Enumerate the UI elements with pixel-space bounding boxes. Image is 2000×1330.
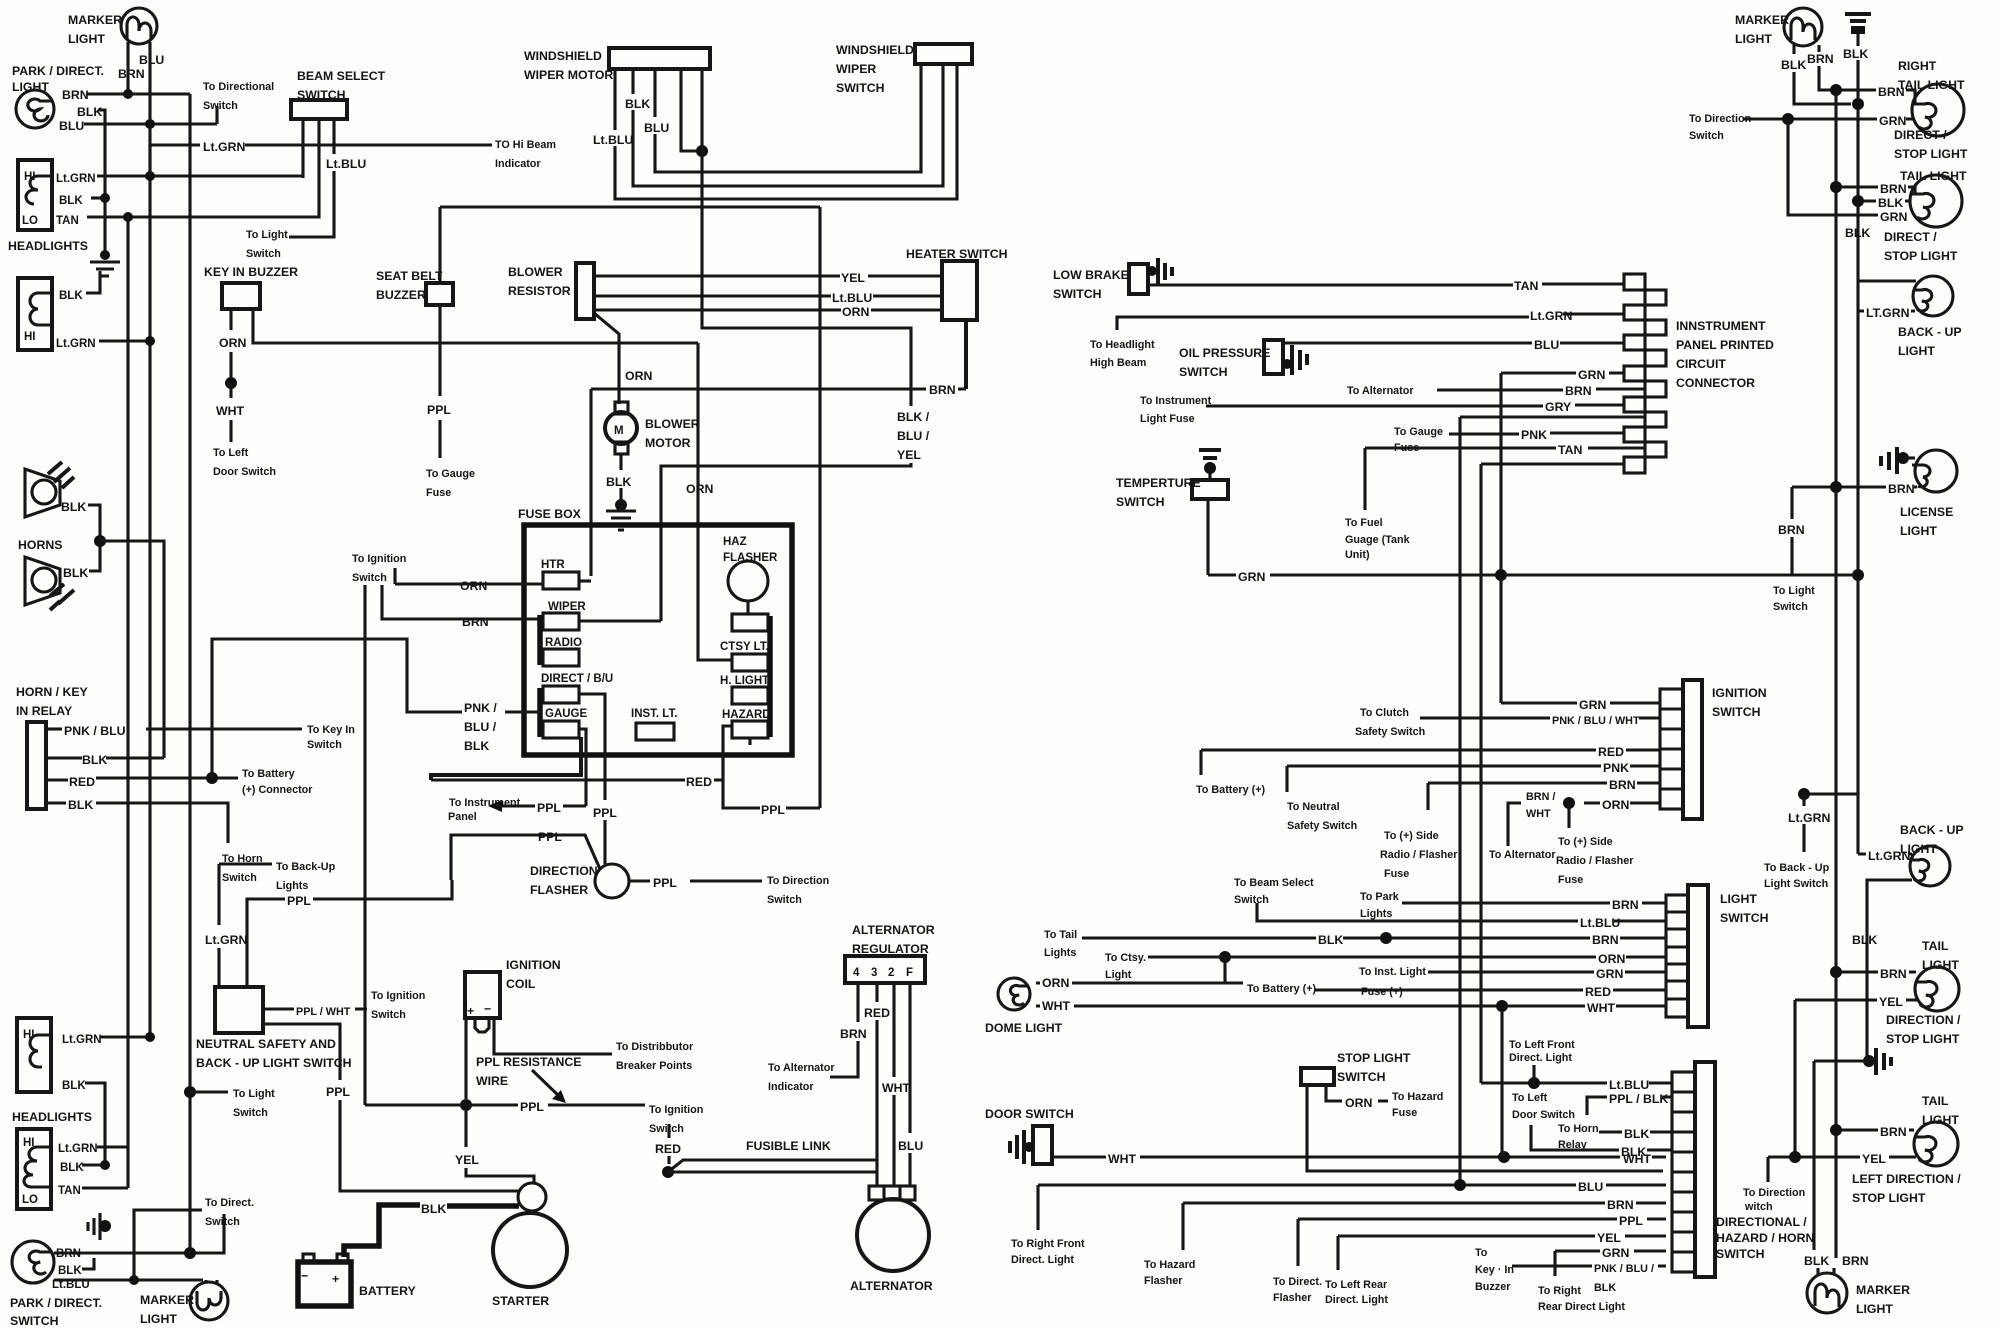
wire PPL top line to hazard riser: [440, 205, 820, 208]
wire wiper motor leg BLU: [655, 64, 921, 172]
wire PPL neutral to starter solenoid: [340, 1189, 519, 1192]
svg-text:RED: RED: [864, 1006, 890, 1020]
wire RED ignition to battery: [1201, 748, 1660, 751]
wire BRN ignition: [1428, 781, 1660, 784]
svg-text:BLU: BLU: [1578, 1180, 1603, 1194]
tail light 3: [1915, 939, 1959, 1011]
wire BRN bus: [1834, 90, 1837, 1258]
svg-text:Direct. Light: Direct. Light: [1509, 1052, 1572, 1064]
svg-text:TAN: TAN: [1514, 279, 1538, 293]
wire BRN into WIPER: [382, 585, 543, 619]
wire beam select right leg lower to To Light Switch: [289, 171, 334, 237]
oil pressure switch: [1179, 340, 1307, 379]
svg-text:PNK / BLU /: PNK / BLU /: [1594, 1263, 1654, 1275]
svg-text:BEAM SELECT: BEAM SELECT: [297, 69, 386, 83]
wire marker bottom leads: [1818, 1268, 1834, 1275]
svg-text:GRN: GRN: [1602, 1246, 1629, 1260]
wire BLK2 to horn switch: [96, 803, 228, 843]
wire GRN inst light line: [1428, 970, 1666, 973]
svg-text:Direct. Light: Direct. Light: [1011, 1254, 1074, 1266]
svg-text:Lt.GRN: Lt.GRN: [1788, 811, 1830, 825]
svg-text:TO Hi Beam: TO Hi Beam: [495, 139, 556, 151]
wire BRN3: [1836, 970, 1916, 973]
marker light bottom: [140, 1282, 228, 1326]
wire PPL line: [365, 1103, 645, 1106]
svg-text:BLOWER: BLOWER: [508, 265, 563, 279]
ignition coil: [465, 958, 561, 1032]
svg-text:KEY IN BUZZER: KEY IN BUZZER: [204, 265, 298, 279]
wire LtBLU bottom: [54, 1278, 203, 1281]
svg-text:MARKER: MARKER: [68, 13, 122, 27]
node BLK bus marker junction: [1852, 98, 1864, 110]
back-up light 2: [1900, 823, 1964, 886]
svg-text:To Park: To Park: [1360, 891, 1400, 903]
wire blower motor BLK down: [619, 454, 622, 500]
wire PNK/BLU/WHT clutch line: [1420, 716, 1660, 719]
wire YEL3: [1795, 997, 1917, 1000]
svg-text:ORN: ORN: [842, 305, 869, 319]
node WHT junction: [225, 377, 237, 389]
wire to fuel gauge drop: [1363, 448, 1366, 510]
svg-text:To Ignition: To Ignition: [649, 1104, 703, 1116]
svg-text:To Ignition: To Ignition: [371, 990, 425, 1002]
svg-text:GRN: GRN: [1579, 698, 1606, 712]
svg-text:Lt.GRN: Lt.GRN: [56, 338, 96, 350]
ground symbol (headlights): [90, 262, 120, 276]
node BRN4 junction: [1830, 1124, 1842, 1136]
wire GRN line: [1555, 1249, 1666, 1252]
wire PPL/WHT: [263, 1007, 367, 1010]
svg-text:COIL: COIL: [506, 977, 536, 991]
wire LtGRN into neutral switch: [217, 948, 220, 987]
wire PPL drop to direct flasher: [1296, 1219, 1299, 1266]
wire marker BRN lead: [1819, 45, 1831, 90]
svg-text:Indicator: Indicator: [768, 1081, 814, 1093]
wire lower Lt.GRN: [99, 339, 150, 342]
beam select switch: [291, 69, 386, 119]
wire to direct switch riser: [134, 1210, 202, 1280]
svg-text:Fuse: Fuse: [1384, 868, 1409, 880]
wire dome ORN / to battery: [1036, 957, 1243, 983]
svg-text:BLU: BLU: [59, 119, 84, 133]
svg-text:DOME LIGHT: DOME LIGHT: [985, 1021, 1063, 1035]
svg-text:To Inst. Light: To Inst. Light: [1359, 966, 1426, 978]
svg-text:DIRECTION /: DIRECTION /: [1886, 1013, 1961, 1027]
node horns junction: [94, 535, 106, 547]
wire GRN line from V1501: [1501, 371, 1624, 374]
node BLK junction: [100, 193, 110, 203]
wire BLU line: [1038, 1183, 1666, 1186]
wire GRN direction line: [1743, 117, 1913, 120]
starter solenoid: [518, 1183, 546, 1211]
wire BRN drop to light switch: [1790, 487, 1793, 576]
node BLU junction V1460: [1454, 1179, 1466, 1191]
svg-text:To Hazard: To Hazard: [1144, 1259, 1195, 1271]
wire ORN riser into fuse box: [698, 343, 732, 660]
node TAN junction: [123, 212, 133, 222]
wire PNK/BLU/BLK key buzzer line: [1512, 1264, 1666, 1267]
svg-text:WINDSHIELD: WINDSHIELD: [524, 49, 602, 63]
wire to light switch: [190, 1090, 228, 1093]
wire PPL from neutral switch to flasher: [451, 835, 600, 880]
svg-text:Lt.BLU: Lt.BLU: [1609, 1078, 1649, 1092]
wire GAUGE to PPL instrument riser: [579, 729, 586, 806]
svg-text:Lt.BLU: Lt.BLU: [593, 133, 633, 147]
svg-text:BRN: BRN: [1880, 967, 1907, 981]
node BLK2 junction: [1852, 195, 1864, 207]
starter motor: [492, 1213, 567, 1308]
svg-text:BLK: BLK: [1845, 226, 1870, 240]
svg-text:BLU: BLU: [644, 121, 669, 135]
svg-text:HORN / KEY: HORN / KEY: [16, 685, 88, 699]
wire BRN line: [1183, 1201, 1666, 1204]
wire YEL drop to left rear: [1336, 1236, 1339, 1270]
svg-text:BLK: BLK: [59, 290, 83, 302]
dome light: [985, 978, 1063, 1035]
node BRN3 junction: [1830, 966, 1842, 978]
ground symbol (top right): [1845, 14, 1871, 46]
svg-text:To Left Rear: To Left Rear: [1325, 1279, 1388, 1291]
svg-text:To Ignition: To Ignition: [352, 553, 406, 565]
svg-text:BLK: BLK: [1843, 47, 1868, 61]
svg-text:MARKER: MARKER: [140, 1293, 194, 1307]
svg-text:BLK: BLK: [63, 566, 88, 580]
wire regulator pin4 BRN: [830, 983, 858, 1077]
svg-text:BRN: BRN: [1888, 482, 1915, 496]
svg-text:STARTER: STARTER: [492, 1294, 549, 1308]
wire coil left leg to PPL dot: [464, 1018, 467, 1099]
svg-text:SWITCH: SWITCH: [1716, 1247, 1765, 1261]
svg-text:BRN: BRN: [56, 1248, 81, 1260]
svg-text:BLK: BLK: [61, 500, 86, 514]
svg-text:LO: LO: [22, 1194, 38, 1206]
svg-text:BLK: BLK: [1318, 933, 1343, 947]
svg-text:RIGHT: RIGHT: [1898, 59, 1937, 73]
wire to directional switch riser: [215, 106, 218, 124]
svg-text:BRN: BRN: [462, 615, 489, 629]
svg-text:YEL: YEL: [1879, 995, 1903, 1009]
ground symbol (left bottom, sideways): [88, 1213, 100, 1240]
svg-text:BATTERY: BATTERY: [359, 1284, 416, 1298]
svg-text:To (+) Side: To (+) Side: [1384, 830, 1439, 842]
wire ORN into HTR: [395, 568, 543, 584]
svg-text:To Direction: To Direction: [767, 875, 829, 887]
wire Lt.GRN headlight high beam line: [1117, 314, 1624, 330]
headlights lower connector: [18, 278, 52, 350]
node BRN license junction: [1830, 481, 1842, 493]
wire headlight BLK: [91, 196, 105, 199]
svg-text:To Left Front: To Left Front: [1509, 1039, 1575, 1051]
svg-text:TAN: TAN: [1558, 443, 1582, 457]
wire horns to relay riser: [100, 541, 164, 758]
node BRN2 junction: [1830, 181, 1842, 193]
wire park BRN to directional elbow: [86, 92, 190, 95]
svg-text:To Instrument: To Instrument: [449, 797, 521, 809]
svg-text:Unit): Unit): [1345, 549, 1370, 561]
wire DIRECT to PPL riser: [579, 694, 605, 800]
instrument panel printed circuit connector: [1624, 274, 1666, 473]
svg-text:PARK / DIRECT.: PARK / DIRECT.: [10, 1296, 102, 1310]
wire relay PNK/BLU: [46, 727, 62, 730]
svg-text:MARKER: MARKER: [1856, 1283, 1910, 1297]
wire To Gauge Fuse PNK line: [1449, 433, 1624, 434]
svg-text:BLK: BLK: [1624, 1127, 1649, 1141]
svg-text:RED: RED: [1585, 985, 1611, 999]
svg-text:LIGHT: LIGHT: [1735, 32, 1772, 46]
back-up light: [1898, 276, 1962, 358]
svg-text:Flasher: Flasher: [1273, 1292, 1312, 1304]
svg-text:To Instrument: To Instrument: [1140, 395, 1212, 407]
svg-text:REGULATOR: REGULATOR: [852, 942, 929, 956]
wire PPL to gauge fuse: [438, 420, 441, 458]
svg-text:YEL: YEL: [455, 1153, 479, 1167]
park / direct switch bulb: [12, 1241, 54, 1283]
battery: [298, 1254, 416, 1306]
svg-text:Relay: Relay: [1558, 1139, 1587, 1151]
wire BLK2: [1858, 199, 1910, 202]
svg-text:DIRECT /: DIRECT /: [1894, 128, 1947, 142]
svg-text:LIGHT: LIGHT: [140, 1312, 177, 1326]
wire battery BLK cable: [344, 1205, 420, 1257]
svg-text:To Left: To Left: [213, 447, 249, 459]
wire ORN blower to heater: [594, 308, 942, 311]
wire seat belt buzzer down: [438, 305, 441, 396]
wire WIPER to right riser: [579, 619, 661, 622]
svg-text:RED: RED: [1598, 745, 1624, 759]
wire GRN ignition: [1501, 701, 1660, 704]
fuse HAZARD: [732, 721, 768, 738]
svg-text:PPL: PPL: [653, 876, 677, 890]
svg-text:BRN: BRN: [840, 1027, 867, 1041]
svg-text:OIL PRESSURE: OIL PRESSURE: [1179, 346, 1270, 360]
wire TAN low brake to connector: [1148, 284, 1624, 285]
node BLK junction: [1380, 932, 1392, 944]
wire ORN to WHT: [229, 352, 232, 378]
svg-text:BLK: BLK: [1621, 1145, 1646, 1159]
svg-text:BLK: BLK: [625, 97, 650, 111]
wire DIRECT PPL riser to flasher: [603, 820, 606, 864]
wire GRY instrument light fuse line: [1206, 405, 1624, 406]
license light: [1900, 450, 1957, 538]
wire marker BLK lead: [1794, 45, 1851, 104]
wire regulator pinF BLU: [908, 983, 911, 1186]
svg-text:SWITCH: SWITCH: [1179, 365, 1228, 379]
svg-text:Lt.BLU: Lt.BLU: [832, 291, 872, 305]
svg-text:WHT: WHT: [216, 404, 244, 418]
heater switch: [906, 247, 1008, 320]
marker light bottom right: [1807, 1273, 1910, 1316]
wire fusible link lower: [668, 1170, 877, 1173]
svg-text:GRN: GRN: [1879, 114, 1906, 128]
svg-text:PNK / BLU: PNK / BLU: [64, 724, 126, 738]
svg-text:WIPER: WIPER: [548, 601, 586, 613]
svg-text:BLU: BLU: [898, 1139, 923, 1153]
svg-text:BLK: BLK: [68, 798, 93, 812]
wire GRN drop to right rear: [1553, 1251, 1556, 1276]
svg-text:−: −: [301, 1269, 308, 1283]
wire flasher to fuse1: [746, 601, 749, 614]
wire headlight Lt.GRN: [97, 174, 303, 177]
svg-text:GRN: GRN: [1578, 368, 1605, 382]
svg-text:BRN: BRN: [1592, 933, 1619, 947]
svg-text:Lt.GRN: Lt.GRN: [56, 173, 96, 185]
node LtGRN junction 2: [145, 336, 155, 346]
wire blower resistor ORN diagonal: [594, 313, 619, 404]
wire BLK bottom: [82, 1258, 94, 1269]
svg-text:To Alternator: To Alternator: [1489, 849, 1556, 861]
wire PNK/BLU/BLK into GAUGE fuse: [505, 710, 540, 713]
svg-text:BRN: BRN: [1609, 778, 1636, 792]
wire flasher PPL to direction switch: [629, 879, 762, 882]
svg-text:BACK - UP: BACK - UP: [1900, 823, 1964, 837]
wire park BLU horizontal: [84, 122, 217, 125]
svg-text:BRN: BRN: [1612, 898, 1639, 912]
svg-text:LOW BRAKE: LOW BRAKE: [1053, 268, 1129, 282]
svg-text:PPL: PPL: [326, 1085, 350, 1099]
svg-text:Lt.GRN: Lt.GRN: [205, 933, 247, 947]
node BRN bus top junction: [1830, 84, 1842, 96]
wire Lt.BLU beam select line: [1257, 903, 1666, 921]
svg-text:TAN: TAN: [56, 215, 79, 227]
svg-text:GRY: GRY: [1545, 400, 1571, 414]
key in buzzer: [204, 265, 298, 309]
fuse GAUGE: [543, 708, 588, 738]
wire back-up 2 branch: [1804, 792, 1858, 795]
svg-text:STOP LIGHT: STOP LIGHT: [1852, 1191, 1926, 1205]
node blower ground dot: [615, 499, 627, 511]
svg-text:BRN: BRN: [1878, 85, 1905, 99]
svg-text:LICENSE: LICENSE: [1900, 505, 1953, 519]
svg-text:PANEL PRINTED: PANEL PRINTED: [1676, 338, 1774, 352]
svg-text:YEL: YEL: [841, 271, 865, 285]
svg-text:To Distribbutor: To Distribbutor: [616, 1041, 694, 1053]
fuse RADIO: [543, 637, 582, 666]
node ORN junction: [1563, 797, 1575, 809]
svg-text:PNK: PNK: [1521, 428, 1547, 442]
svg-text:BLK: BLK: [1594, 1282, 1616, 1294]
svg-text:ORN: ORN: [1042, 976, 1069, 990]
node BLU junction: [145, 119, 155, 129]
fuse HTR: [541, 559, 579, 589]
svg-text:PPL: PPL: [538, 830, 562, 844]
svg-text:Switch: Switch: [1234, 894, 1269, 906]
svg-text:PARK / DIRECT.: PARK / DIRECT.: [12, 64, 104, 78]
wire battery+ riser to PNK/BLU/BLK: [212, 639, 462, 778]
svg-text:ALTERNATOR: ALTERNATOR: [850, 1279, 933, 1293]
wire left front drop: [1532, 1065, 1535, 1083]
svg-text:HAZARD / HORN: HAZARD / HORN: [1716, 1231, 1814, 1245]
wire BRN to right tail: [1836, 90, 1915, 104]
wire BLK cable to solenoid: [447, 1203, 519, 1209]
svg-text:BRN: BRN: [1842, 1254, 1869, 1268]
svg-text:PPL: PPL: [593, 806, 617, 820]
fuse H LIGHT: [732, 687, 768, 704]
wire PPL elbow from neutral switch: [247, 880, 452, 987]
svg-text:witch: witch: [1744, 1201, 1773, 1213]
svg-text:INST. LT.: INST. LT.: [631, 708, 677, 720]
wire TAN fuel gauge line: [1365, 446, 1644, 449]
svg-text:To Gauge: To Gauge: [1394, 426, 1443, 438]
svg-text:WIRE: WIRE: [476, 1074, 508, 1088]
svg-text:BLK: BLK: [60, 1162, 84, 1174]
wire BLK bus lower: [1856, 577, 1859, 854]
svg-text:TEMPERTURE: TEMPERTURE: [1116, 476, 1201, 490]
svg-text:STOP LIGHT: STOP LIGHT: [1894, 147, 1968, 161]
svg-text:Switch: Switch: [767, 894, 802, 906]
wire V1460: [1458, 417, 1461, 1185]
wire ORN drop: [1567, 803, 1570, 828]
svg-text:LO: LO: [22, 215, 38, 227]
wire BLU oil switch to connector: [1283, 341, 1624, 344]
wire fusible link upper: [668, 1160, 877, 1172]
svg-text:Switch: Switch: [203, 100, 238, 112]
svg-text:To Back-Up: To Back-Up: [276, 861, 336, 873]
svg-text:PPL: PPL: [1619, 1214, 1643, 1228]
wire YEL4: [1768, 1155, 1916, 1158]
alternator connector: [869, 1186, 915, 1200]
svg-text:Light: Light: [1105, 969, 1132, 981]
fuse INST LT: [631, 708, 677, 740]
marker light (top right): [1735, 8, 1822, 46]
wire relay BLK to horns riser: [46, 756, 164, 759]
wire below dot: [229, 388, 232, 398]
ground symbol (license): [1881, 447, 1915, 474]
svg-text:BLK: BLK: [1852, 933, 1877, 947]
wire regulator pin2 WHT: [892, 983, 895, 1186]
svg-text:To Left: To Left: [1512, 1092, 1548, 1104]
wire key-in buzzer left leg: [229, 309, 232, 330]
node GRN junction: [1782, 113, 1794, 125]
svg-text:To Direct.: To Direct.: [1273, 1276, 1322, 1288]
tail light 2: [1900, 169, 1967, 227]
svg-text:To Fuel: To Fuel: [1345, 517, 1383, 529]
svg-text:LT.GRN: LT.GRN: [1866, 306, 1910, 320]
svg-text:BLK: BLK: [58, 1265, 82, 1277]
svg-text:TAIL: TAIL: [1922, 939, 1949, 953]
svg-text:WINDSHIELD: WINDSHIELD: [836, 43, 914, 57]
wire temp switch GRN: [1206, 499, 1209, 575]
svg-text:GAUGE: GAUGE: [545, 708, 588, 720]
svg-text:Switch: Switch: [307, 739, 342, 751]
svg-text:PPL: PPL: [427, 403, 451, 417]
wire ignition red lead: [667, 1124, 670, 1164]
svg-text:To Key In: To Key In: [307, 724, 355, 736]
svg-text:Flasher: Flasher: [1144, 1275, 1183, 1287]
svg-text:PPL: PPL: [537, 801, 561, 815]
wire back-up 2 BLK down: [1867, 880, 1912, 1061]
svg-text:ORN: ORN: [219, 336, 246, 350]
svg-text:YEL: YEL: [1597, 1231, 1621, 1245]
svg-text:4: 4: [853, 967, 860, 979]
neutral safety and back-up light switch: [196, 987, 352, 1070]
bar left of DIRECT/GAUGE: [537, 688, 543, 737]
svg-text:Safety Switch: Safety Switch: [1355, 726, 1425, 738]
svg-text:To Battery (+): To Battery (+): [1247, 983, 1316, 995]
wire BRN line: [591, 387, 966, 390]
wire YEL bus: [1793, 1000, 1796, 1157]
svg-text:Door Switch: Door Switch: [213, 466, 276, 478]
svg-text:To Right: To Right: [1538, 1285, 1581, 1297]
wire Lt.GRN to back-up 2: [1858, 852, 1912, 855]
wire relay RED: [46, 778, 68, 781]
wire YEL line: [1338, 1234, 1666, 1237]
park / direct light: [12, 64, 104, 128]
bar right of fuses: [767, 616, 773, 737]
blower motor: [605, 402, 700, 454]
svg-text:WHT: WHT: [1108, 1152, 1136, 1166]
svg-text:RED: RED: [655, 1142, 681, 1156]
low brake switch: [1053, 258, 1172, 301]
